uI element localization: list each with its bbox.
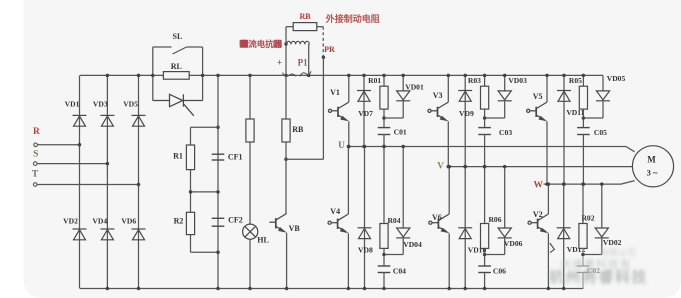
- wire VD04 to snubber node: [384, 254, 403, 256]
- junction V4 collector on phase line: [347, 145, 351, 149]
- wire VD9 column: [464, 75, 466, 166]
- junction VD02 on phase line: [600, 182, 604, 186]
- svg-text:V3: V3: [433, 91, 443, 100]
- diode VD10: [458, 228, 472, 239]
- wire VB emitter: [286, 233, 288, 289]
- svg-text:C01: C01: [394, 128, 407, 137]
- junction C05 on phase line: [582, 182, 586, 186]
- wire soft-start right branch: [202, 47, 204, 101]
- switch SL: [153, 47, 203, 54]
- wire ext RB left lead: [286, 26, 293, 28]
- junction VD9 on + bus: [463, 74, 467, 78]
- terminal S: [33, 162, 37, 166]
- junction snubber node R02/C02: [581, 253, 585, 257]
- capacitor CF2: [212, 218, 225, 226]
- junction + terminal on bus: [284, 74, 288, 78]
- wire VD03 to snubber node: [485, 117, 505, 119]
- svg-text:VD1: VD1: [65, 100, 80, 109]
- junction VD6 bottom on - bus: [137, 287, 141, 291]
- wire R06 upper lead: [484, 167, 486, 224]
- resistor R05: [579, 86, 587, 109]
- wire C03 to phase line: [484, 135, 486, 167]
- node PR terminal: [322, 56, 326, 60]
- svg-text:R06: R06: [488, 215, 501, 224]
- wire phase T input: [37, 184, 139, 186]
- junction C01 on phase line: [382, 145, 386, 149]
- wire RB upper lead: [285, 75, 287, 159]
- diode VD02: [595, 228, 609, 238]
- wire divider midpoint connector: [191, 191, 220, 193]
- wire C04 to - bus: [383, 273, 385, 289]
- svg-text:RL: RL: [171, 62, 182, 71]
- diode VD8: [358, 228, 372, 239]
- wire VD06 to snubber node: [485, 254, 505, 256]
- wire V4 collector from phase: [347, 147, 349, 215]
- diode VD11: [557, 91, 571, 102]
- svg-text:+: +: [277, 59, 282, 69]
- svg-text:有限公司: 有限公司: [600, 247, 636, 258]
- wire R1-R2 link: [190, 170, 192, 213]
- resistor R06: [481, 224, 489, 249]
- svg-text:VD8: VD8: [358, 245, 373, 254]
- wire C02 to - bus: [582, 273, 584, 289]
- wire R04 to snubber node: [383, 248, 385, 266]
- wire VD02 upper lead: [601, 184, 603, 228]
- transistor V6: [429, 214, 449, 231]
- junction snubber node R04/C04: [382, 253, 386, 257]
- svg-text:3 ~: 3 ~: [647, 167, 658, 177]
- diode VD04: [396, 228, 410, 238]
- svg-text:CF2: CF2: [228, 215, 243, 224]
- wire C06 to - bus: [484, 273, 486, 289]
- wire HL branch lower: [249, 239, 251, 288]
- resistor R03: [481, 86, 489, 109]
- wire HL branch upper: [249, 75, 251, 224]
- junction snubber node R06/C06: [483, 253, 487, 257]
- junction VD11 on phase line: [562, 182, 566, 186]
- wire VD01 upper lead: [402, 75, 404, 91]
- wire V5 emitter to phase: [546, 121, 548, 184]
- svg-text:VD03: VD03: [508, 76, 527, 85]
- svg-text:V6: V6: [432, 213, 442, 222]
- capacitor C02 (washed out by watermark): [577, 266, 590, 273]
- wire R1 upper lead: [190, 127, 192, 145]
- wire VD05 to snubber node: [583, 117, 603, 119]
- svg-text:R04: R04: [387, 216, 400, 225]
- wire R06 to snubber node: [484, 248, 486, 266]
- junction V2 emitter on - bus: [547, 287, 551, 291]
- junction VD8 on - bus: [363, 287, 367, 291]
- wire phase U output: [348, 147, 635, 152]
- junction R05 on + bus: [582, 74, 586, 78]
- wire VD06 lower lead: [504, 238, 506, 255]
- svg-text:V2: V2: [533, 210, 543, 219]
- node T on VD5 column: [137, 183, 141, 187]
- svg-text:R2: R2: [174, 217, 184, 226]
- wire - DC bus: [80, 288, 583, 290]
- junction CF column on + bus: [216, 74, 220, 78]
- svg-text:C04: C04: [393, 267, 406, 276]
- junction VD04 on phase line: [401, 145, 405, 149]
- capacitor C04: [378, 266, 391, 273]
- svg-text:VD6: VD6: [121, 216, 136, 225]
- wire VD06 upper lead: [504, 167, 506, 228]
- svg-text:VB: VB: [289, 224, 301, 233]
- svg-text:RB: RB: [299, 12, 311, 21]
- junction VD12 on - bus: [562, 287, 566, 291]
- diode VD9: [458, 91, 472, 102]
- wire rectifier column VD1/VD2: [79, 75, 81, 288]
- svg-text:C03: C03: [499, 128, 512, 137]
- junction R04 on phase line: [382, 145, 386, 149]
- junction VD10 on - bus: [463, 287, 467, 291]
- junction C04 on - bus: [382, 287, 386, 291]
- junction V3 emitter on phase line: [447, 165, 451, 169]
- junction RB/VB node: [284, 158, 288, 162]
- junction VD9 on phase line: [463, 165, 467, 169]
- capacitor C05: [577, 128, 590, 135]
- diode VD01: [396, 91, 410, 101]
- diode VD05: [596, 91, 610, 101]
- svg-text:R1: R1: [173, 152, 183, 161]
- lamp HL: [243, 224, 258, 239]
- resistor R01: [380, 86, 388, 109]
- svg-text:P1: P1: [298, 58, 308, 68]
- wire ext RB right lead: [317, 26, 323, 28]
- wire VD03 lower lead: [504, 101, 506, 118]
- junction V4 emitter on - bus: [347, 287, 351, 291]
- capacitor C01: [378, 128, 391, 135]
- junction VD01 on + bus: [401, 74, 405, 78]
- svg-text:R05: R05: [569, 76, 582, 85]
- junction CF1/CF2 midpoint: [216, 190, 220, 194]
- wire VD8 column: [364, 147, 366, 289]
- svg-text:RB: RB: [292, 125, 304, 134]
- transistor V5: [527, 102, 547, 119]
- svg-text:VD02: VD02: [603, 238, 622, 247]
- wire phase V output: [448, 166, 633, 168]
- wire VD10 column: [464, 167, 466, 289]
- svg-text:SL: SL: [173, 32, 183, 41]
- junction snubber node R05/C05: [582, 116, 586, 120]
- diode VD5: [132, 115, 146, 126]
- wire R2 bottom connector: [191, 251, 219, 253]
- resistor R02: [579, 224, 587, 249]
- diode VD6: [132, 229, 146, 240]
- svg-text:R02: R02: [581, 214, 594, 223]
- wire VB collector: [285, 159, 287, 214]
- wire rectifier column VD5/VD6: [138, 75, 140, 288]
- junction VD03 on + bus: [503, 74, 507, 78]
- diode VD03: [498, 91, 512, 101]
- resistor RL (charging resistor): [163, 72, 189, 80]
- junction VD4 bottom on - bus: [106, 287, 110, 291]
- wire V1 emitter to phase: [348, 121, 350, 146]
- wire V3 emitter to phase: [447, 121, 449, 166]
- svg-text:S: S: [33, 150, 38, 160]
- wire VD04 lower lead: [402, 238, 404, 255]
- wire V2 emitter to - bus: [547, 233, 549, 288]
- wire V1 collector: [348, 75, 350, 102]
- junction V5 emitter on phase line: [545, 182, 549, 186]
- junction V6 collector on phase line: [447, 165, 451, 169]
- svg-text:VD3: VD3: [93, 100, 108, 109]
- resistor RB (internal brake): [282, 119, 290, 142]
- svg-text:VD7: VD7: [358, 109, 373, 118]
- junction soft-start left node: [151, 74, 155, 78]
- wire C01 to phase line: [383, 135, 385, 147]
- junction C03 on phase line: [483, 165, 487, 169]
- wire VD01 lower lead: [402, 101, 404, 118]
- capacitor C03: [478, 128, 491, 135]
- wire dashed link to PR: [322, 27, 324, 56]
- wire V5 collector: [546, 75, 548, 102]
- svg-text:R: R: [33, 127, 40, 137]
- wire VD11 column: [563, 75, 565, 184]
- junction P1 terminal on bus: [307, 74, 311, 78]
- thyristor (bypass SCR): [153, 94, 203, 116]
- capacitor CF1: [212, 154, 225, 160]
- junction VD5 top on + bus: [137, 74, 141, 78]
- wire VD02 lower lead: [601, 238, 603, 255]
- svg-text:R01: R01: [368, 76, 381, 85]
- wire phase R input: [37, 144, 79, 146]
- junction VD7 on + bus: [362, 74, 366, 78]
- svg-text:VD05: VD05: [607, 74, 626, 83]
- svg-text:V4: V4: [330, 207, 340, 216]
- diode VD3: [100, 115, 114, 126]
- capacitor C06: [478, 266, 491, 273]
- junction VD7 on phase line: [362, 145, 366, 149]
- junction snubber node R01/C01: [382, 116, 386, 120]
- diode VD1: [73, 115, 87, 126]
- junction snubber node R03/C03: [483, 116, 487, 120]
- transistor VB (brake chopper): [269, 214, 286, 231]
- svg-text:VD01: VD01: [405, 82, 424, 91]
- wire R05 upper lead: [582, 75, 584, 86]
- svg-text:VD9: VD9: [459, 109, 474, 118]
- inductor P1 (DC reactor coil): [286, 41, 309, 44]
- junction R2 bottom tap: [216, 250, 220, 254]
- wire V6 emitter to - bus: [448, 233, 450, 288]
- wire R1 top connector: [191, 126, 219, 128]
- junction CF column on - bus: [216, 287, 220, 291]
- wire V4 emitter to - bus: [347, 233, 349, 288]
- wire VD7 column: [363, 75, 365, 146]
- junction V6 emitter on - bus: [447, 287, 451, 291]
- junction V1 collector on + bus: [347, 74, 351, 78]
- terminal R: [34, 143, 38, 147]
- wire R2 lower lead: [190, 235, 192, 253]
- wire R01 upper lead: [383, 75, 385, 86]
- diode VD06: [498, 228, 512, 238]
- motor M 3~: [632, 146, 673, 187]
- transistor V3: [428, 102, 448, 119]
- wire R05 to snubber node: [582, 109, 584, 128]
- transistor V4: [328, 214, 348, 231]
- svg-text:W: W: [534, 180, 544, 190]
- junction HL branch on + bus: [248, 74, 252, 78]
- wire V2 collector from phase: [547, 184, 549, 214]
- junction V2 collector on phase line: [547, 182, 551, 186]
- label DC reactor (Chinese) highlight blocks: [240, 40, 249, 48]
- svg-text:VD2: VD2: [63, 216, 78, 225]
- wire C05 to phase line: [582, 135, 584, 185]
- junction VD8 on phase line: [363, 145, 367, 149]
- wire R03 to snubber node: [484, 109, 486, 128]
- wire soft-start left branch: [152, 47, 154, 101]
- terminal T: [33, 183, 37, 187]
- diode VD12: [557, 228, 571, 239]
- junction VB on - bus: [285, 287, 289, 291]
- svg-text:C05: C05: [594, 128, 607, 137]
- wire V6 collector from phase: [448, 167, 450, 214]
- wire phase W output: [544, 181, 635, 185]
- node S on VD3 column: [106, 162, 110, 166]
- wire + DC bus: [80, 74, 603, 76]
- junction V1 emitter on phase line: [347, 145, 351, 149]
- wire VD03 upper lead: [504, 75, 506, 91]
- wire phase S input: [37, 163, 107, 165]
- wire VD04 upper lead: [402, 147, 404, 229]
- wire VD05 lower lead: [602, 101, 604, 118]
- wire VD02 to snubber node: [583, 254, 602, 256]
- svg-text:直流电抗器: 直流电抗器: [240, 39, 282, 49]
- junction R03 on + bus: [483, 74, 487, 78]
- junction VD3 top on + bus: [106, 74, 110, 78]
- svg-text:V: V: [437, 162, 444, 172]
- wire RB node to PR riser: [286, 158, 323, 160]
- junction C06 on - bus: [483, 287, 487, 291]
- junction R1/R2 midpoint: [189, 190, 193, 194]
- svg-text:CF1: CF1: [228, 152, 243, 161]
- svg-text:VD4: VD4: [92, 216, 107, 225]
- svg-text:VD04: VD04: [403, 240, 422, 249]
- junction V5 collector on + bus: [545, 74, 549, 78]
- junction coil left / RB lead: [284, 42, 287, 45]
- squiggle mark on V2 emitter: [550, 243, 555, 253]
- wire R03 upper lead: [484, 75, 486, 86]
- diode VD2: [73, 229, 87, 240]
- junction VD11 on + bus: [562, 74, 566, 78]
- node R on VD1 column: [78, 143, 82, 147]
- diode VD4: [100, 229, 114, 240]
- junction VD10 on phase line: [463, 165, 467, 169]
- junction R06 on phase line: [483, 165, 487, 169]
- junction R01 on + bus: [382, 74, 386, 78]
- wire R04 upper lead: [383, 147, 385, 224]
- wire P1 terminal riser: [308, 44, 310, 75]
- svg-text:R03: R03: [468, 76, 481, 85]
- wire R02 to snubber node: [582, 248, 584, 266]
- svg-text:VD06: VD06: [504, 239, 523, 248]
- watermark (decorative, not labelled further): [549, 247, 648, 286]
- resistor RB (external braking resistor): [293, 23, 317, 31]
- flexible-link squiggle at + terminal: [283, 73, 297, 77]
- wire VD01 to snubber node: [384, 117, 403, 119]
- junction R1 top tap: [216, 126, 220, 130]
- wire VD12 column: [563, 184, 565, 288]
- svg-text:M: M: [647, 155, 656, 165]
- svg-text:V1: V1: [330, 88, 340, 97]
- wire R02 upper lead: [582, 184, 584, 223]
- wire R01 to snubber node: [383, 109, 385, 128]
- resistor R1: [186, 145, 194, 170]
- resistor R2: [186, 212, 194, 234]
- svg-text:VD5: VD5: [123, 100, 138, 109]
- wire rectifier column VD3/VD4: [106, 75, 108, 288]
- flexible-link squiggle at P1 terminal: [300, 71, 311, 76]
- diode VD7: [357, 91, 371, 102]
- svg-text:州将睿科技有: 州将睿科技有: [560, 257, 632, 271]
- resistor (HL series): [246, 119, 254, 142]
- transistor V2: [528, 214, 548, 231]
- junction soft-start right node: [201, 74, 205, 78]
- svg-text:U: U: [338, 141, 345, 151]
- transistor V1: [328, 102, 348, 119]
- resistor R04: [380, 224, 388, 249]
- svg-text:T: T: [32, 169, 39, 179]
- wire CF1/CF2 column: [217, 75, 219, 288]
- wire + terminal riser: [285, 27, 287, 76]
- svg-text:PR: PR: [324, 45, 335, 54]
- junction VD06 on phase line: [503, 165, 507, 169]
- junction HL branch on - bus: [248, 287, 252, 291]
- wire VD05 upper lead: [602, 75, 604, 91]
- junction R02 on phase line: [581, 182, 585, 186]
- wire V3 collector: [447, 75, 449, 102]
- svg-text:C06: C06: [493, 267, 506, 276]
- wire PR riser (crosses + bus): [322, 57, 324, 159]
- svg-text:HL: HL: [257, 236, 269, 245]
- junction V3 collector on + bus: [447, 74, 451, 78]
- junction VD12 on phase line: [562, 182, 566, 186]
- svg-text:V5: V5: [533, 92, 543, 101]
- svg-text:外接制动电阻: 外接制动电阻: [325, 13, 380, 24]
